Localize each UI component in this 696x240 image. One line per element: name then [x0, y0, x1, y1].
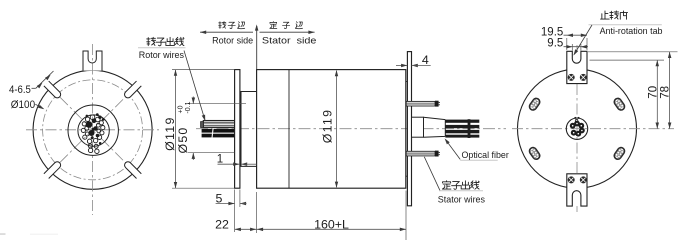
left view top tab with U-notch	[83, 51, 102, 71]
svg-text:Rotor wires: Rotor wires	[139, 49, 184, 60]
rotor side arrow	[200, 31, 253, 33]
dim extension body left face	[256, 192, 258, 233]
label 止转片	[601, 11, 610, 19]
svg-text:70: 70	[647, 86, 659, 99]
Ø119 body dim line	[336, 71, 338, 188]
svg-text:19.5: 19.5	[541, 26, 563, 38]
right view center connector cluster	[566, 118, 587, 139]
dim 9.5 extensions	[571, 44, 573, 51]
left view inner circle r16	[78, 115, 109, 146]
rotor flange plate	[235, 70, 240, 189]
Ø50 dim extension top	[188, 103, 246, 105]
Ø119 flange dim line	[175, 70, 177, 189]
stator flange plate	[407, 52, 411, 206]
label 定子出线	[442, 181, 451, 189]
stator screw rod top	[406, 101, 435, 106]
dim 70 extension	[590, 59, 665, 61]
dim 19.5 line	[564, 34, 588, 36]
rotor-stator divider arrow	[256, 26, 258, 69]
Ø50 dim extension bottom	[188, 152, 234, 154]
svg-text:Ø50: Ø50	[176, 126, 190, 153]
svg-text:+0: +0	[178, 105, 185, 113]
dim 5 line	[216, 203, 235, 205]
faint watermark remnant bottom-left	[0, 233, 6, 235]
Ø119 flange dim extension top	[172, 69, 234, 71]
anti-rotation underline	[589, 24, 662, 26]
stator screw nut bottom	[435, 151, 439, 157]
svg-text:Stator wires: Stator wires	[438, 194, 485, 205]
left view horizontal centerline	[26, 129, 159, 131]
svg-text:Optical fiber: Optical fiber	[462, 149, 509, 160]
label 定子边	[270, 21, 277, 28]
svg-text:4-6.5: 4-6.5	[9, 84, 31, 96]
rotor wires leader	[184, 51, 205, 121]
stator body Ø119	[257, 70, 406, 189]
Ø50 dim line	[192, 97, 194, 104]
rotor wire black bundle lower	[202, 134, 235, 138]
Ø119 flange dim extension bottom	[172, 187, 234, 189]
rotor wire tube end cap	[201, 122, 204, 128]
left view 4 bolt slots 4-6.5	[123, 81, 141, 99]
left view vertical centerline	[92, 44, 94, 215]
svg-text:Rotor side: Rotor side	[212, 35, 253, 46]
svg-text:9.5: 9.5	[547, 38, 563, 50]
body seam line	[288, 70, 290, 189]
leader 4-6.5	[32, 87, 36, 89]
svg-text:1: 1	[217, 153, 223, 165]
dim 78 line	[669, 52, 671, 129]
dim 70 line	[656, 60, 658, 129]
rotor wire black bundle upper	[202, 129, 235, 133]
dim 1 line	[218, 163, 240, 165]
side view centerline	[196, 128, 506, 130]
svg-text:Ø100: Ø100	[11, 99, 35, 111]
right view vertical centerline	[576, 45, 578, 213]
left view inner circle r25	[68, 105, 118, 155]
left view diagonal centerline 135	[46, 84, 139, 177]
svg-text:-0.1: -0.1	[185, 101, 192, 113]
stator screw nut top	[435, 101, 439, 107]
stator wires leader	[424, 157, 440, 191]
right view top anti-rotation tab	[567, 51, 587, 83]
dim 5 extension lines	[234, 190, 236, 233]
dim extension body right face	[405, 191, 407, 240]
left view rotor flange outer circle Ø119	[33, 70, 152, 189]
svg-text:Ø119: Ø119	[321, 109, 335, 144]
label 转子边	[219, 22, 226, 29]
right view bottom anti-rotation tab	[567, 174, 587, 206]
stator hub right	[406, 81, 408, 176]
right view horizontal centerline	[512, 128, 674, 130]
right view 4 oval thumb screws	[528, 97, 541, 111]
left view diagonal centerline 45	[46, 84, 139, 177]
optical fiber leader	[446, 140, 460, 159]
optical fiber cables	[445, 120, 479, 123]
rotor wire tube	[203, 121, 234, 128]
left view bolt circle Ø100 dash-dot	[43, 80, 143, 180]
dim 9.5 line	[564, 46, 589, 48]
svg-text:22: 22	[215, 218, 229, 232]
stator screw rod bottom	[406, 151, 435, 156]
right view stator flange circle	[518, 69, 637, 188]
dim line 22 and 160+L	[235, 228, 406, 230]
leader Ø100	[35, 104, 43, 108]
stator wires underline	[439, 190, 483, 192]
wire bundle break mark	[212, 128, 213, 138]
svg-text:Stator side: Stator side	[262, 35, 317, 46]
left view center wire bundle cluster	[86, 121, 93, 128]
anti-rotation leader	[574, 25, 592, 55]
dim 78 extension	[588, 51, 678, 53]
optical fiber underline	[460, 159, 498, 161]
svg-text:Anti-rotation tab: Anti-rotation tab	[600, 25, 663, 36]
fiber connector cylinder	[412, 117, 424, 137]
label 转子出线	[147, 37, 156, 45]
rotor hub	[241, 92, 257, 167]
rotor wires underline	[138, 47, 186, 49]
svg-text:78: 78	[660, 86, 672, 99]
dim 19.5 extensions	[566, 38, 568, 50]
dim 4 line	[396, 64, 407, 66]
stator side arrow	[260, 31, 315, 33]
fiber connector taper	[424, 117, 446, 137]
